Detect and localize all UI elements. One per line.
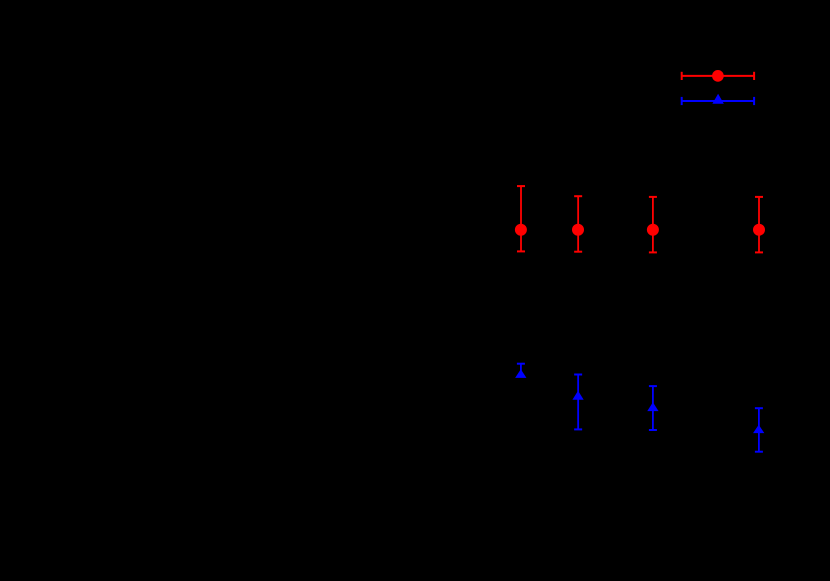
red point 1 marker xyxy=(515,224,527,236)
blue point 3 marker xyxy=(647,402,658,411)
red point 4 marker xyxy=(753,224,765,236)
blue point 1 errorbar xyxy=(517,364,525,376)
legend blue errorbar sample line xyxy=(681,97,755,105)
legend red errorbar sample line xyxy=(681,72,755,80)
blue point 2 errorbar xyxy=(574,375,582,430)
blue point 3 errorbar xyxy=(649,386,657,430)
legend blue triangle marker xyxy=(712,94,724,104)
red point 1 errorbar xyxy=(517,186,525,251)
legend red circle marker xyxy=(712,70,724,82)
blue point 1 marker xyxy=(515,369,526,378)
red point 2 marker xyxy=(572,224,584,236)
red point 2 errorbar xyxy=(574,196,582,252)
blue point 4 marker xyxy=(753,425,764,433)
blue point 4 errorbar xyxy=(755,408,763,452)
blue point 2 marker xyxy=(572,391,583,400)
red point 3 errorbar xyxy=(649,197,657,253)
red point 3 marker xyxy=(647,224,659,236)
red point 4 errorbar xyxy=(755,197,763,253)
